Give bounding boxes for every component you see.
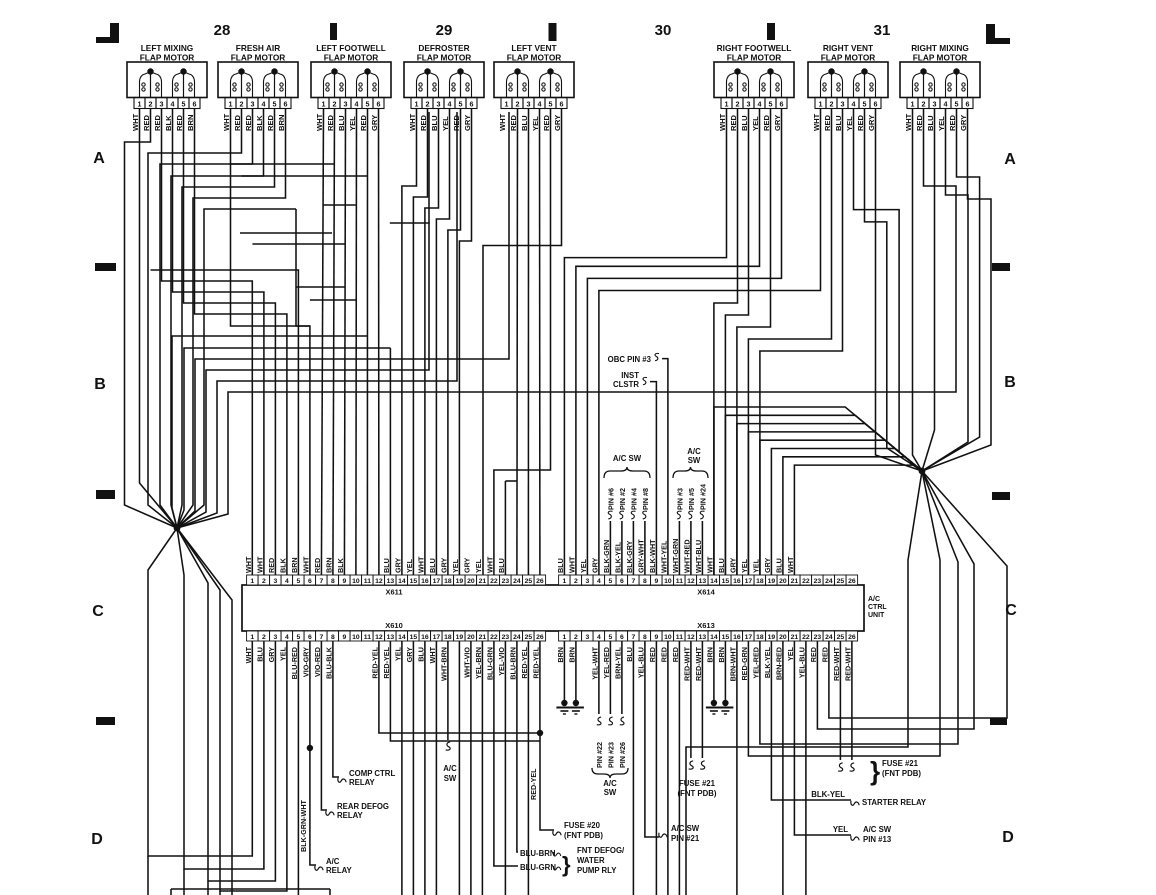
svg-text:6: 6 — [284, 99, 288, 108]
wire X614 pin18 run to node S2 — [760, 440, 922, 575]
wire X610 pin26 to junction — [539, 641, 541, 733]
wire M5 pin3 to X611 pin25 — [527, 109, 529, 575]
svg-text:1: 1 — [725, 99, 729, 108]
svg-text:13: 13 — [387, 634, 395, 641]
column tick 30/31 — [767, 23, 775, 40]
svg-text:3: 3 — [586, 578, 590, 585]
svg-text:20: 20 — [779, 634, 787, 641]
svg-text:PIN #22: PIN #22 — [595, 742, 604, 768]
svg-text:PIN #8: PIN #8 — [641, 488, 650, 510]
wire M1 pin2 to node S1 via left jog — [125, 109, 178, 528]
svg-text:GRY: GRY — [867, 115, 876, 131]
svg-text:RED-YEL: RED-YEL — [520, 646, 529, 678]
svg-text:4: 4 — [538, 99, 542, 108]
svg-text:10: 10 — [664, 578, 672, 585]
terminal FUSE #21 (right) — [838, 756, 921, 786]
svg-text:X613: X613 — [697, 621, 715, 630]
svg-text:WHT: WHT — [904, 113, 913, 131]
wire X614 pin19 run to node S2 — [771, 449, 922, 576]
wire node S2 to X613 pin18 around right side — [760, 471, 958, 744]
svg-text:5: 5 — [769, 99, 773, 108]
wire M8 pin6 to node S2 — [922, 109, 991, 471]
svg-text:RED: RED — [419, 114, 428, 131]
svg-text:23: 23 — [502, 578, 510, 585]
wire M2 pin3 staircase to node S1 — [160, 109, 253, 528]
wire X614 pin7 to A/C SW pin4 — [632, 521, 634, 575]
svg-text:15: 15 — [722, 634, 730, 641]
svg-text:A/C SW: A/C SW — [671, 824, 700, 833]
svg-text:YEL: YEL — [474, 558, 483, 573]
wire tie rung y176 — [242, 175, 368, 177]
wire M2 pin1 to X611 pin6 — [231, 109, 310, 326]
wire M8 pin4 to node S2 — [922, 109, 968, 471]
svg-text:RED: RED — [542, 114, 551, 131]
svg-text:GRY: GRY — [462, 557, 471, 573]
svg-text:PIN #26: PIN #26 — [618, 742, 627, 768]
wire X613 pin11 to bottom edge — [678, 641, 680, 895]
wire node S1 to X610 pin1 — [148, 528, 252, 856]
svg-text:23: 23 — [502, 634, 510, 641]
svg-text:RIGHT VENT: RIGHT VENT — [823, 43, 873, 53]
svg-text:10: 10 — [352, 634, 360, 641]
svg-text:1: 1 — [563, 578, 567, 585]
svg-text:DEFROSTER: DEFROSTER — [418, 43, 469, 53]
wire ladder rung to node S1 (y348) — [177, 348, 390, 528]
svg-text:22: 22 — [490, 634, 498, 641]
wire M3 pin1 to X611 pin7 — [321, 109, 323, 575]
svg-text:WHT: WHT — [301, 556, 310, 573]
column tick 29/30 — [549, 23, 557, 41]
row letter D left — [91, 831, 103, 848]
svg-text:(FNT PDB): (FNT PDB) — [678, 789, 717, 798]
wire X614 pin10 to OBC pin3 — [662, 359, 668, 575]
svg-text:WHT: WHT — [255, 556, 264, 573]
wire X610 pin25 to bottom edge — [527, 641, 529, 895]
svg-text:PIN #3: PIN #3 — [675, 488, 684, 510]
svg-text:5: 5 — [549, 99, 553, 108]
svg-text:YEL-BLU: YEL-BLU — [797, 647, 806, 678]
svg-text:BRN-RED: BRN-RED — [774, 647, 783, 680]
svg-text:15: 15 — [410, 578, 418, 585]
svg-text:RED: RED — [266, 114, 275, 131]
svg-text:RED: RED — [233, 114, 242, 131]
wire X610 pin24 to fnt defog rly — [517, 641, 518, 852]
wire X613 pin14 to ground — [713, 641, 715, 700]
wire colour labels motor 3 — [315, 113, 379, 131]
svg-text:20: 20 — [779, 578, 787, 585]
svg-text:3: 3 — [747, 99, 751, 108]
row tick C/D right — [990, 718, 1007, 725]
svg-text:18: 18 — [444, 634, 452, 641]
wire M3 pin6 to X611 pin12 — [378, 109, 380, 575]
wire X614 pin13 to A/C SW pin24 — [701, 521, 703, 575]
svg-text:1: 1 — [415, 99, 419, 108]
ground X613 pin1 — [556, 700, 572, 714]
svg-text:SW: SW — [604, 788, 617, 797]
svg-text:15: 15 — [410, 634, 418, 641]
svg-text:D: D — [91, 831, 103, 848]
wire node S1 to X610 pin2 — [177, 528, 264, 869]
node S2 (right harness crossing) — [919, 468, 926, 475]
svg-text:18: 18 — [444, 578, 452, 585]
svg-text:22: 22 — [802, 578, 810, 585]
wire node S2 to X613 pin23 around right side — [817, 471, 974, 729]
svg-text:1: 1 — [819, 99, 823, 108]
svg-text:PIN #5: PIN #5 — [687, 488, 696, 510]
wire X613 pin20 to bottom edge — [782, 641, 784, 895]
svg-text:5: 5 — [955, 99, 959, 108]
svg-text:YEL-VIO: YEL-VIO — [497, 647, 506, 676]
svg-text:3: 3 — [251, 99, 255, 108]
svg-text:GRY: GRY — [553, 115, 562, 131]
wire bottom-left junction box top — [170, 889, 172, 895]
wire ladder rung to node S1 (y336) — [172, 336, 367, 528]
svg-text:BLK-YEL: BLK-YEL — [763, 646, 772, 678]
wire X613 pin12 to fuse #21 — [690, 641, 692, 758]
svg-text:RIGHT MIXING: RIGHT MIXING — [911, 43, 969, 53]
svg-text:RIGHT FOOTWELL: RIGHT FOOTWELL — [717, 43, 792, 53]
svg-text:13: 13 — [699, 634, 707, 641]
svg-text:WHT-VIO: WHT-VIO — [462, 647, 471, 678]
svg-text:FLAP MOTOR: FLAP MOTOR — [231, 53, 286, 63]
svg-text:21: 21 — [791, 578, 799, 585]
svg-text:GRY: GRY — [763, 557, 772, 573]
wire X610 pin20 to bottom edge — [470, 641, 472, 895]
svg-text:17: 17 — [433, 634, 441, 641]
svg-text:PIN #24: PIN #24 — [698, 484, 707, 510]
wire M4 pin2 to X611 pin15 — [413, 109, 427, 575]
svg-text:11: 11 — [364, 578, 371, 585]
wire X614 pin9 to INST CLSTR — [650, 382, 656, 575]
node S1 (left harness crossing) — [174, 525, 181, 532]
wire tie rung y287 — [296, 286, 346, 288]
svg-text:BLK-GRN-WHT: BLK-GRN-WHT — [299, 799, 308, 852]
connector X613 pin strip — [559, 621, 858, 641]
wire X610 pin7 to rear defog relay — [321, 641, 327, 810]
column number 29 — [436, 22, 453, 39]
connector: LEFT FOOTWELL FLAP MOTOR (motor 3) — [311, 43, 391, 109]
wire M7 pin5 to node S2 — [865, 109, 923, 471]
wire M1 pin1 to node S1 — [140, 109, 178, 528]
wire X613 pin13 to fuse #21 — [701, 641, 703, 758]
wire M8 pin3 to node S2 — [922, 109, 935, 471]
svg-text:WHT: WHT — [567, 556, 576, 573]
svg-text:BRN: BRN — [717, 647, 726, 663]
svg-text:YEL: YEL — [833, 825, 848, 834]
svg-text:RED-WHT: RED-WHT — [843, 646, 852, 681]
wire X614 pin5 to A/C SW pin6 — [609, 521, 611, 575]
svg-text:BLU-BLK: BLU-BLK — [324, 646, 333, 679]
svg-text:BLU-GRN: BLU-GRN — [485, 647, 494, 680]
svg-text:YEL: YEL — [751, 116, 760, 131]
label A/C SW pins (X613 4-6) — [592, 717, 628, 797]
svg-text:FUSE #21: FUSE #21 — [882, 759, 919, 768]
svg-text:VIO-RED: VIO-RED — [313, 647, 322, 677]
svg-text:}: } — [562, 852, 571, 877]
svg-text:RED: RED — [762, 114, 771, 131]
svg-text:X614: X614 — [697, 588, 715, 597]
wire node S2 to X613 pin24 around right side — [829, 471, 1007, 718]
svg-text:SW: SW — [444, 774, 457, 783]
svg-text:23: 23 — [814, 578, 822, 585]
wire M1 pin5 to X611 pin3 — [184, 109, 276, 575]
wire M1 pin4 to X611 pin2 — [173, 109, 264, 575]
svg-text:GRY: GRY — [393, 557, 402, 573]
svg-text:A/C: A/C — [687, 447, 701, 456]
svg-text:7: 7 — [632, 578, 636, 585]
svg-text:WHT: WHT — [244, 646, 253, 663]
svg-text:16: 16 — [733, 634, 741, 641]
svg-text:BLU: BLU — [520, 115, 529, 131]
terminal INST CLSTR — [613, 371, 647, 389]
svg-text:21: 21 — [479, 578, 487, 585]
svg-text:18: 18 — [756, 634, 764, 641]
svg-text:11: 11 — [676, 634, 683, 641]
svg-text:14: 14 — [710, 634, 718, 641]
wire M6 pin1 to X614 pin1 — [564, 109, 726, 575]
svg-text:2: 2 — [922, 99, 926, 108]
svg-text:6: 6 — [966, 99, 970, 108]
wire X610 pin22 to water pump rly — [494, 641, 518, 866]
connector: RIGHT FOOTWELL FLAP MOTOR (motor 6) — [714, 43, 794, 109]
wire node S2 to X613 pin17 around right side — [748, 471, 940, 756]
svg-text:4: 4 — [758, 99, 762, 108]
svg-text:FLAP MOTOR: FLAP MOTOR — [821, 53, 876, 63]
wire M5 pin5 to X611 pin22 — [494, 109, 551, 575]
wire node S1 to X610 pin4 — [177, 528, 287, 891]
svg-text:GRY: GRY — [463, 115, 472, 131]
wire motor to X614 pin17 — [748, 109, 831, 575]
svg-text:6: 6 — [560, 99, 564, 108]
wire M5 pin4 to X611 pin26 — [539, 109, 541, 575]
svg-text:BLU: BLU — [625, 647, 634, 662]
connector X610 pin strip — [247, 621, 546, 641]
ground X613 pin2 — [568, 700, 584, 714]
row letter A left — [93, 150, 105, 167]
svg-text:5: 5 — [863, 99, 867, 108]
corner registration mark top-right — [986, 24, 1010, 44]
svg-text:14: 14 — [398, 578, 406, 585]
svg-text:3: 3 — [933, 99, 937, 108]
wire X613 pin16 to bottom edge — [736, 641, 738, 895]
svg-text:BRN: BRN — [324, 557, 333, 573]
svg-text:FLAP MOTOR: FLAP MOTOR — [727, 53, 782, 63]
wire X610 pin18 to A/C SW — [447, 641, 449, 740]
wire X613 pin19 to starter relay — [771, 641, 851, 800]
wire X614 pin8 to A/C SW pin8 — [644, 521, 646, 575]
svg-text:WHT-YEL: WHT-YEL — [659, 540, 668, 573]
wire X611 pin13 riser — [389, 348, 391, 575]
svg-text:(FNT PDB): (FNT PDB) — [564, 831, 603, 840]
wire X613 pin7 to bottom edge — [632, 641, 634, 895]
connector X611 pin strip — [247, 575, 546, 597]
wire X614 pin20 run to node S2 — [783, 457, 922, 575]
svg-text:RED: RED — [820, 647, 829, 662]
svg-text:SW: SW — [688, 456, 701, 465]
junction X610 pin6 splice — [307, 745, 313, 751]
wire X613 pin26 to fuse #21 right — [851, 641, 853, 760]
svg-text:GRY: GRY — [370, 115, 379, 131]
svg-text:LEFT VENT: LEFT VENT — [511, 43, 556, 53]
svg-text:WHT-BLU: WHT-BLU — [694, 540, 703, 573]
svg-text:YEL: YEL — [937, 116, 946, 131]
svg-text:RED-YEL: RED-YEL — [370, 646, 379, 678]
wire X610 pin14 to bottom edge — [401, 641, 403, 895]
svg-text:COMP CTRL: COMP CTRL — [349, 769, 395, 778]
wire motor to X614 pin16 — [737, 109, 771, 575]
svg-text:BLK-GRN: BLK-GRN — [602, 540, 611, 573]
svg-text:6: 6 — [620, 578, 624, 585]
wire X610 pin23 to bottom edge — [504, 641, 506, 895]
svg-text:6: 6 — [620, 634, 624, 641]
svg-text:BRN: BRN — [290, 557, 299, 573]
svg-text:WHT-BRN: WHT-BRN — [439, 647, 448, 681]
svg-text:GRY: GRY — [405, 647, 414, 663]
row tick B/C right — [992, 492, 1010, 500]
wire M4 pin6 to X611 pin19 — [459, 109, 471, 575]
svg-text:2: 2 — [574, 634, 578, 641]
svg-text:RED: RED — [175, 114, 184, 131]
wire M7 pin6 to node S2 — [876, 109, 923, 471]
svg-text:YEL: YEL — [451, 558, 460, 573]
svg-text:8: 8 — [331, 578, 335, 585]
svg-text:RED-WHT: RED-WHT — [694, 646, 703, 681]
svg-text:BLU: BLU — [556, 558, 565, 573]
column number 30 — [655, 22, 672, 39]
svg-text:14: 14 — [710, 578, 718, 585]
label A/C SW pins (X614 5-8) — [604, 454, 650, 519]
svg-text:YEL: YEL — [845, 116, 854, 131]
wire M3 pin3 to X611 pin9 — [344, 109, 345, 575]
svg-text:17: 17 — [745, 578, 753, 585]
wire M7 pin1 to X614 pin4 — [599, 109, 821, 575]
svg-text:RED-WHT: RED-WHT — [682, 646, 691, 681]
svg-text:GRY: GRY — [590, 557, 599, 573]
svg-text:17: 17 — [745, 634, 753, 641]
svg-text:BRN: BRN — [567, 647, 576, 663]
svg-text:25: 25 — [525, 634, 533, 641]
svg-text:13: 13 — [387, 578, 395, 585]
wire colour labels motor 8 — [904, 113, 968, 131]
svg-text:RED: RED — [823, 114, 832, 131]
wire M3 pin5 to X611 pin11 — [366, 109, 368, 575]
svg-text:B: B — [1004, 374, 1016, 391]
svg-text:31: 31 — [874, 22, 891, 39]
wire X614 pin12 to A/C SW pin5 — [690, 521, 692, 575]
svg-text:YEL-RED: YEL-RED — [602, 647, 611, 679]
X610 wire colour labels — [244, 646, 541, 681]
wire M8 pin2 long run row B to node S1 — [177, 109, 956, 528]
svg-text:1: 1 — [322, 99, 326, 108]
svg-text:BLU: BLU — [497, 558, 506, 573]
wire X610 pin21 to bottom edge — [481, 641, 483, 895]
terminal A/C SW (X610 pin18) — [443, 742, 457, 783]
svg-text:YEL: YEL — [393, 646, 402, 661]
svg-text:12: 12 — [687, 578, 695, 585]
terminal COMP CTRL RELAY — [338, 769, 396, 787]
row letter C left — [92, 603, 104, 620]
svg-text:RED-GRN: RED-GRN — [740, 647, 749, 681]
wire tie rung y223 — [390, 222, 430, 224]
svg-text:1: 1 — [250, 578, 254, 585]
wire M5 pin6 to X611 pin21 — [483, 109, 562, 575]
svg-text:BRN: BRN — [705, 647, 714, 663]
svg-text:VIO-GRY: VIO-GRY — [301, 647, 310, 677]
wire M6 pin6 to X614 pin3 — [587, 109, 781, 575]
svg-text:19: 19 — [768, 578, 776, 585]
wire X610 pin15 to bottom edge — [412, 641, 414, 895]
A/C control unit box (U1) — [242, 585, 864, 631]
label RED-YEL fuse #20 wire — [529, 768, 538, 800]
svg-text:24: 24 — [825, 634, 833, 641]
svg-text:GRY: GRY — [728, 557, 737, 573]
svg-text:12: 12 — [687, 634, 695, 641]
svg-text:GRY-WHT: GRY-WHT — [636, 539, 645, 573]
wire colour labels motor 5 — [498, 113, 562, 131]
X614 wire colour labels — [556, 539, 795, 573]
svg-text:RED: RED — [671, 647, 680, 662]
svg-text:8: 8 — [643, 634, 647, 641]
svg-text:25: 25 — [837, 578, 845, 585]
svg-text:2: 2 — [574, 578, 578, 585]
svg-text:4: 4 — [285, 634, 289, 641]
svg-text:BLK-YEL: BLK-YEL — [811, 790, 845, 799]
ground X613 pin15 — [717, 700, 733, 714]
svg-text:1: 1 — [505, 99, 509, 108]
row tick C/D left — [96, 717, 115, 725]
row letter C right — [1005, 602, 1017, 619]
corner registration mark top-left — [96, 23, 119, 43]
svg-text:RED-WHT: RED-WHT — [832, 646, 841, 681]
svg-text:21: 21 — [791, 634, 799, 641]
svg-text:WHT: WHT — [498, 113, 507, 131]
wire X610 pin8 to comp ctrl relay — [333, 641, 339, 777]
svg-text:6: 6 — [780, 99, 784, 108]
svg-text:STARTER RELAY: STARTER RELAY — [862, 798, 927, 807]
wire X613 pin1 to ground — [563, 641, 565, 700]
svg-text:YEL: YEL — [531, 116, 540, 131]
svg-text:12: 12 — [375, 634, 383, 641]
svg-text:BLK-YEL: BLK-YEL — [613, 541, 622, 573]
wire X611 pin23 riser tap — [505, 480, 517, 482]
wire M4 pin5 to X611 pin18 — [448, 109, 461, 575]
wire tie rung y244 — [252, 243, 345, 245]
wire colour labels motor 7 — [812, 113, 876, 131]
svg-text:12: 12 — [375, 578, 383, 585]
svg-text:REAR DEFOG: REAR DEFOG — [337, 802, 389, 811]
svg-text:BLU: BLU — [740, 115, 749, 131]
terminal A/C SW PIN #21 — [659, 824, 700, 843]
svg-text:BRN: BRN — [186, 115, 195, 131]
svg-text:2: 2 — [262, 634, 266, 641]
svg-text:BLU-BRN: BLU-BRN — [520, 849, 556, 858]
svg-text:16: 16 — [421, 578, 429, 585]
wire X613 pin15 to ground — [724, 641, 726, 700]
column tick 28/29 — [330, 23, 337, 40]
svg-text:WATER: WATER — [577, 856, 605, 865]
wire M1 pin3 to X611 pin1 — [162, 109, 253, 575]
svg-text:RELAY: RELAY — [326, 866, 353, 875]
svg-text:BLU: BLU — [382, 558, 391, 573]
svg-text:9: 9 — [655, 578, 659, 585]
svg-text:WHT: WHT — [705, 556, 714, 573]
X613 wire colour labels — [556, 646, 853, 681]
wire M2 pin5 staircase to node S1 — [177, 109, 275, 528]
svg-text:FLAP MOTOR: FLAP MOTOR — [324, 53, 379, 63]
svg-text:BLU: BLU — [255, 647, 264, 662]
svg-text:2: 2 — [262, 578, 266, 585]
svg-text:LEFT MIXING: LEFT MIXING — [141, 43, 194, 53]
